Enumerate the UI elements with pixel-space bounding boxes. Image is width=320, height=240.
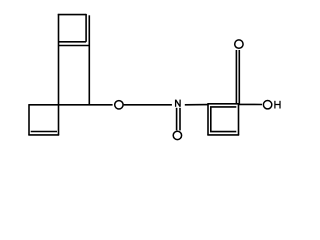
node: N=O double bond line 1 xyxy=(176,108,178,131)
node: carbonyl O label xyxy=(235,40,243,48)
node: right square bottom edge xyxy=(207,134,239,136)
node: lower-left square bottom edge xyxy=(28,134,59,136)
node: right square inner double bracket xyxy=(211,107,237,132)
node: N label xyxy=(176,100,181,107)
wire: bond N to ring through OH xyxy=(185,104,209,106)
wire: bond C to OH xyxy=(239,103,263,105)
node: C=O double bond line 1 xyxy=(235,50,237,104)
node: hydroxyl O label xyxy=(263,101,271,109)
node: top square top edge xyxy=(58,14,86,16)
node: right square top edge xyxy=(207,103,239,105)
node: C=O double bond line 2 xyxy=(238,50,240,104)
node: nitroso O label xyxy=(173,131,181,139)
node: lower-left square double bond inner line xyxy=(31,131,57,133)
node: right square left edge xyxy=(207,104,209,135)
wire: outer bottom line xyxy=(59,45,90,47)
node: top square right edge xyxy=(85,14,87,42)
node: hydroxyl H label xyxy=(275,101,280,109)
node: right square right edge xyxy=(238,104,240,135)
node: ether O label xyxy=(115,101,123,109)
wire: bond O to N xyxy=(124,104,172,106)
node: N=O double bond line 2 xyxy=(179,108,181,131)
node: top square bottom edge xyxy=(59,41,87,43)
wire: outer right vertical long xyxy=(88,15,90,105)
wire: main horizontal bond chain left segment xyxy=(29,104,113,106)
node: lower-left square left edge xyxy=(28,104,30,135)
wire: long left vertical xyxy=(58,14,60,135)
